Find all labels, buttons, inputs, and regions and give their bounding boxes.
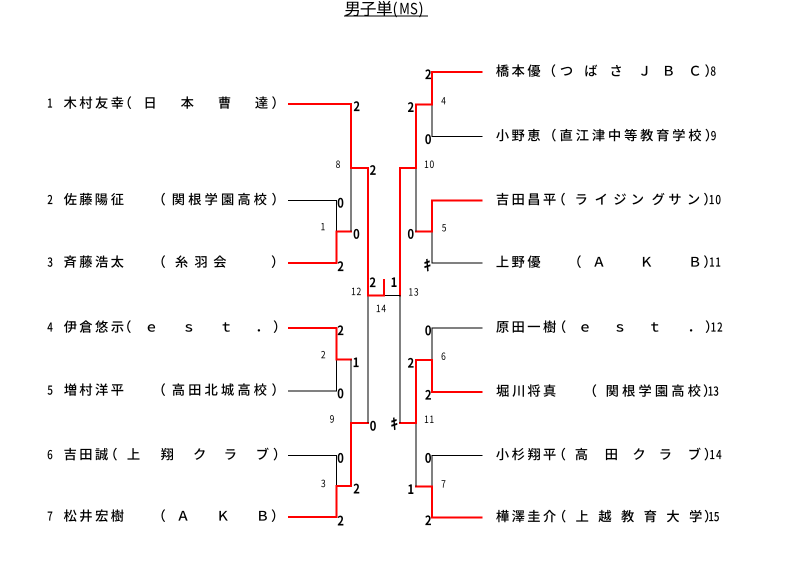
right row 11 上野優 text <box>496 255 720 268</box>
player 5 増村洋平 line <box>288 391 337 392</box>
player 4 伊倉悠示 line <box>288 327 338 329</box>
match 6 junction lower winner (red) <box>431 359 433 393</box>
match number 2 <box>321 351 325 358</box>
forfeit キ 堀川 match13 <box>391 417 397 430</box>
match 9 lower winner (red) <box>350 422 352 487</box>
match 3 winner stub <box>336 485 353 487</box>
score 斉藤w1 match8 <box>354 229 360 239</box>
score 原田 match6 <box>425 325 431 335</box>
match 8 lower (black) <box>351 168 352 232</box>
player 14 小杉翔平 line <box>432 455 483 456</box>
player 1 木村友幸 line <box>288 103 352 105</box>
score 堀川 match11 <box>408 358 414 368</box>
champion stub (red) <box>383 279 385 297</box>
forfeit キ 上野優 match5 <box>424 259 430 272</box>
match 1 junction upper (black) <box>336 201 337 232</box>
score 木村 final <box>370 277 376 287</box>
score 松井 match9 <box>354 484 360 494</box>
player 15 樺澤圭介 line <box>431 517 482 519</box>
match 8 winner stub <box>350 167 369 169</box>
left row 5 増村洋平 text <box>48 383 276 396</box>
score 橋本 match10 <box>408 102 414 112</box>
score 吉田昌平w5 match10 <box>408 229 414 239</box>
match number 12 <box>352 288 361 295</box>
match number 7 <box>442 480 446 487</box>
score 松井w9 match12 <box>370 421 376 431</box>
match 8 upper winner (red) <box>350 103 352 169</box>
right row 15 樺澤圭介 text <box>496 510 719 523</box>
left row 7 松井宏樹 text <box>48 509 276 522</box>
match number 3 <box>321 480 325 488</box>
player 12 原田一樹 line <box>432 328 483 329</box>
match 2 winner stub <box>336 359 353 361</box>
match 10 winner stub <box>399 167 417 169</box>
score 吉田誠 match3 <box>338 453 344 463</box>
match 3 junction lower winner (red) <box>336 485 338 518</box>
match 11 upper winner (red) <box>415 359 417 424</box>
match number 1 <box>321 223 324 230</box>
left row 4 伊倉悠示 text <box>47 320 277 333</box>
player 10 吉田昌平 line <box>431 200 482 202</box>
score 樺澤 match7 <box>425 515 431 525</box>
score 木村 match8 <box>354 101 360 111</box>
match 7 junction lower winner (red) <box>431 486 433 519</box>
left row 1 木村友幸 text <box>48 96 276 109</box>
match 12 semifinal lower (black) <box>368 296 369 424</box>
score 橋本 match4 <box>425 69 431 79</box>
match 13 semifinal upper winner (red) <box>399 167 401 297</box>
score 木村 match12 <box>370 165 376 175</box>
match 7 winner stub <box>415 486 433 488</box>
score 小野 match4 <box>425 134 431 144</box>
match 6 winner stub <box>415 359 433 361</box>
player 9 小野恵 line <box>432 136 483 137</box>
right row 13 堀川将真 text <box>496 384 718 397</box>
right row 10 吉田昌平 text <box>497 193 721 206</box>
match 11 lower (black) <box>416 423 417 487</box>
right row 9 小野恵 text <box>496 129 716 142</box>
match 12 semifinal upper winner (red) <box>367 167 369 297</box>
score 小杉 match7 <box>425 453 431 463</box>
left row 6 吉田誠 text <box>48 448 278 461</box>
match 9 upper (black) <box>351 360 352 424</box>
right row 8 橋本優 text <box>496 64 715 77</box>
match number 9 <box>330 415 334 423</box>
left row 2 佐藤陽征 text <box>48 193 276 206</box>
player 2 佐藤陽征 line <box>288 200 337 201</box>
match number 13 <box>409 288 418 296</box>
match 4 winner stub <box>415 104 433 106</box>
match number 10 <box>425 161 434 169</box>
right row 14 小杉翔平 text <box>496 448 721 461</box>
match 4 junction lower (black) <box>432 105 433 137</box>
match 10 upper winner (red) <box>415 104 417 170</box>
player 8 橋本優 line <box>431 71 482 73</box>
match number 8 <box>336 160 340 168</box>
match 3 junction upper (black) <box>336 456 337 487</box>
match 1 winner stub <box>336 231 353 233</box>
match 5 junction lower (black) <box>432 232 433 264</box>
player 7 松井宏樹 line <box>288 516 338 518</box>
match 2 junction lower (black) <box>336 360 337 392</box>
title 男子単(MS) <box>345 1 422 17</box>
match number 5 <box>442 224 446 231</box>
player 6 吉田誠 line <box>288 455 337 456</box>
player 3 斉藤浩太 line <box>288 262 338 264</box>
match 4 junction upper winner (red) <box>431 71 433 106</box>
match 5 junction upper winner (red) <box>431 200 433 233</box>
player 11 上野優 line <box>432 263 483 264</box>
score 斉藤 match1 <box>338 261 344 271</box>
match 7 junction upper (black) <box>432 456 433 487</box>
score 伊倉 match2 <box>338 325 344 335</box>
score 増村 match2 <box>338 388 344 398</box>
match number 6 <box>442 352 446 360</box>
match number 14 <box>377 305 386 312</box>
match 13 semifinal lower (black) <box>400 296 401 424</box>
right row 12 原田一樹 text <box>496 320 722 333</box>
score 松井 match3 <box>338 516 344 526</box>
title underline <box>344 16 428 17</box>
score 樺澤 match11 <box>408 484 413 494</box>
left row 3 斉藤浩太 text <box>48 255 276 268</box>
match 2 junction upper winner (red) <box>336 327 338 361</box>
match 5 winner stub <box>415 231 433 233</box>
final loser side (black) <box>384 295 400 296</box>
match number 4 <box>441 97 445 104</box>
match number 11 <box>425 416 434 423</box>
score 伊倉 match9 <box>354 358 359 368</box>
score 堀川 match6 <box>425 390 431 400</box>
score 橋本 final <box>392 277 397 287</box>
score 佐藤 match1 <box>338 198 344 208</box>
player 13 堀川将真 line <box>431 391 482 393</box>
match 11 winner stub <box>399 422 417 424</box>
match 10 lower (black) <box>416 168 417 232</box>
match 1 junction lower winner (red) <box>336 231 338 265</box>
final winner side (red) <box>367 295 385 297</box>
match 6 junction upper (black) <box>432 328 433 360</box>
match 9 winner stub <box>350 422 369 424</box>
